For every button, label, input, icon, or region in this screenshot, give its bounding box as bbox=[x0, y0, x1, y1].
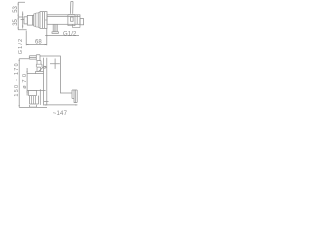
body flange (bottom view) bbox=[36, 71, 44, 73]
wall break squiggle bbox=[38, 66, 46, 71]
leader line for G1/2 bbox=[45, 35, 79, 36]
dimension 68 bbox=[26, 29, 47, 46]
extension line at escutcheon bottom bbox=[27, 89, 46, 91]
small wall bracket line bbox=[44, 101, 49, 103]
svg-text:53: 53 bbox=[13, 5, 19, 12]
svg-text:35: 35 bbox=[13, 18, 19, 25]
faucet side view: long body slab bbox=[47, 15, 80, 24]
svg-text:G1/2: G1/2 bbox=[63, 31, 77, 37]
svg-text:68: 68 bbox=[35, 39, 42, 45]
svg-text:G1/2: G1/2 bbox=[18, 38, 24, 55]
extension line at spout tip (vertical with arrows) bbox=[22, 12, 23, 29]
cartridge rings (bottom view) bbox=[37, 61, 41, 65]
dimension line D70 bbox=[26, 68, 35, 96]
faucet side view: spout tube bbox=[27, 15, 33, 25]
dimension line ~147 bbox=[44, 104, 77, 105]
handle stick bbox=[71, 2, 74, 14]
faucet side view: rings bbox=[34, 13, 38, 28]
wall union block bbox=[68, 15, 80, 28]
svg-text:150 - 170: 150 - 170 bbox=[14, 62, 20, 96]
dimension line 150-170 bbox=[19, 59, 47, 108]
handle lever (bottom view) bbox=[29, 56, 36, 59]
cartridge inner rect bbox=[71, 17, 74, 21]
outlet right edge line bbox=[39, 89, 41, 105]
outlet upper block bbox=[29, 90, 37, 95]
centerline stub at tip bbox=[21, 19, 25, 21]
spout nut rings bbox=[72, 90, 77, 103]
svg-text:ø70: ø70 bbox=[22, 71, 28, 88]
dimension line 53/35 (top view left) bbox=[18, 2, 27, 30]
faucet side view: body flange block bbox=[40, 12, 47, 29]
supply pipe outline bbox=[40, 56, 72, 93]
wall step flange bbox=[80, 19, 84, 25]
svg-text:~147: ~147 bbox=[53, 111, 68, 117]
faucet side view: aerator cap bbox=[24, 17, 27, 24]
aerator nozzle bbox=[30, 105, 37, 107]
outlet lower block bbox=[30, 96, 39, 104]
center cross bbox=[50, 59, 60, 69]
bottom port G1/2 bbox=[52, 24, 58, 33]
wall lines bbox=[44, 58, 47, 106]
